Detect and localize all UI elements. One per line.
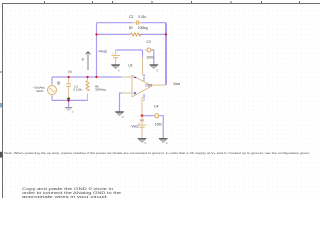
svg-text:C4: C4 bbox=[154, 105, 158, 109]
junction at C1 top bbox=[68, 76, 70, 78]
resistor Rb bbox=[86, 77, 89, 100]
svg-text:0Adc: 0Adc bbox=[36, 89, 44, 93]
svg-text:+Vvcc: +Vvcc bbox=[98, 50, 107, 54]
wire left feedback vertical bbox=[96, 23, 98, 77]
wire right feedback vertical (bold) bbox=[165, 23, 167, 85]
wire +Vvcc rail bbox=[116, 49, 143, 51]
ground 0 under V3 bbox=[138, 139, 147, 146]
svg-text:+: + bbox=[112, 52, 114, 56]
svg-text:100n: 100n bbox=[146, 55, 153, 59]
left border zone tick (dark) bbox=[0, 152, 3, 158]
current source I1 (photodiode AC source) bbox=[48, 84, 57, 97]
svg-text:U2: U2 bbox=[128, 64, 132, 68]
svg-text:Note: When powering the op amp: Note: When powering the op amp, pspice c… bbox=[4, 151, 310, 155]
ground 0 under C4 bbox=[159, 139, 168, 146]
svg-text:300Meg: 300Meg bbox=[95, 88, 106, 92]
wire output bbox=[152, 84, 166, 86]
wire noninverting input to ground bbox=[120, 93, 122, 112]
probe marker at bottom rail bbox=[67, 97, 71, 101]
capacitor C2 bbox=[133, 21, 143, 25]
capacitor C3 bbox=[145, 48, 152, 52]
svg-text:C3: C3 bbox=[146, 40, 150, 44]
wire bottom rail bbox=[52, 99, 88, 101]
wire C2 feedback branch left bbox=[97, 22, 133, 24]
wire C4 to ground bbox=[159, 116, 163, 139]
polarity mark of I1 bbox=[57, 82, 60, 85]
source V3 (VDC battery -Vvcc) bbox=[138, 116, 147, 139]
instruction text block bbox=[22, 186, 122, 199]
svg-text:0.01u: 0.01u bbox=[138, 15, 146, 19]
junction at Rb top bbox=[86, 76, 88, 78]
wire C2 feedback branch right bbox=[139, 22, 166, 24]
resistor R2 bbox=[130, 33, 141, 36]
svg-text:VCC: VCC bbox=[142, 93, 146, 101]
wire source column bottom bbox=[51, 96, 53, 101]
svg-text:appropriate wires in your circ: appropriate wires in your circuit. bbox=[22, 194, 108, 198]
svg-text:10Meg: 10Meg bbox=[138, 26, 148, 30]
svg-text:100n: 100n bbox=[155, 122, 162, 126]
ground 0 under C3 bbox=[150, 65, 159, 73]
source V2 (VDC battery +Vvcc) bbox=[111, 50, 120, 64]
svg-text:0.110n: 0.110n bbox=[73, 88, 82, 92]
ground 0 at bottom rail bbox=[65, 108, 74, 115]
junction at right feedback tap bbox=[165, 33, 167, 35]
svg-text:in: in bbox=[82, 58, 85, 62]
svg-text:OUT: OUT bbox=[145, 84, 152, 88]
junction at V- node bbox=[141, 114, 144, 117]
capacitor C1 bbox=[66, 77, 70, 100]
wire C3 to ground bbox=[152, 50, 154, 64]
wire R2 feedback branch right bbox=[140, 33, 167, 35]
junction at left feedback tap bbox=[95, 33, 97, 35]
capacitor C4 bbox=[154, 114, 160, 118]
junction at bottom rail ground tap bbox=[67, 99, 69, 101]
left border zone tick (blue) bbox=[0, 103, 2, 108]
op-amp U2 bbox=[122, 57, 153, 116]
svg-text:R2: R2 bbox=[129, 26, 133, 30]
svg-text:Vout: Vout bbox=[173, 82, 180, 86]
ground 0 at noninverting input bbox=[115, 112, 124, 119]
svg-text:VCC: VCC bbox=[142, 73, 146, 81]
wire R2 feedback branch left bbox=[97, 33, 131, 35]
wire V+ pin stub bbox=[142, 50, 144, 57]
wire source column top bbox=[51, 77, 53, 85]
svg-text:+: + bbox=[138, 121, 140, 125]
junction at feedback column on input rail bbox=[95, 76, 97, 78]
ground 0 under V2 bbox=[111, 65, 120, 73]
annotation arrow "in" bbox=[86, 52, 91, 71]
svg-text:Vd: Vd bbox=[68, 70, 72, 74]
svg-text:C2: C2 bbox=[129, 15, 133, 19]
wire V- node to C4 bbox=[142, 115, 154, 117]
wire ground stub at bottom rail bbox=[68, 100, 70, 107]
wire inverting input rail bbox=[52, 76, 122, 78]
